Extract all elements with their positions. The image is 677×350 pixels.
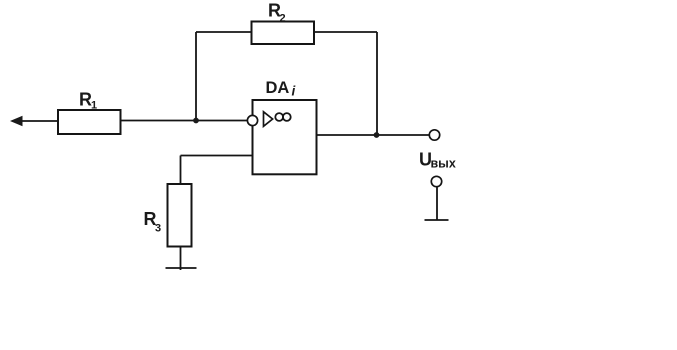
svg-text:2: 2 xyxy=(280,13,286,25)
op-amp gain triangle xyxy=(264,112,273,127)
wire feedback left vertical xyxy=(195,32,197,121)
wire non-inverting input horizontal xyxy=(181,155,253,157)
output terminal circle xyxy=(429,130,439,140)
resistor R3 xyxy=(168,184,192,247)
junction node A (inverting input) xyxy=(193,118,199,124)
wire top-right (R2 right lead) xyxy=(314,31,377,33)
resistor R2 xyxy=(252,22,315,45)
svg-text:вых: вых xyxy=(431,157,456,171)
infinity symbol left loop xyxy=(275,113,283,121)
svg-text:i: i xyxy=(292,84,296,99)
junction node B (output/feedback) xyxy=(374,132,380,138)
svg-text:DA: DA xyxy=(266,79,290,97)
svg-text:3: 3 xyxy=(155,223,161,235)
wire R3 to ground xyxy=(180,247,182,271)
wire top-left (R2 left lead) xyxy=(196,31,252,33)
wire down to R3 xyxy=(180,156,182,185)
wire lower terminal to ground xyxy=(436,187,438,220)
wire feedback right vertical xyxy=(376,32,378,135)
svg-text:1: 1 xyxy=(91,100,97,112)
wire op-amp output xyxy=(317,134,430,136)
wire input (arrow to R1) xyxy=(19,120,58,122)
lower terminal circle xyxy=(431,176,441,186)
ground bar under output xyxy=(425,219,449,221)
op-amp inverting input bubble xyxy=(247,115,257,125)
arrow head (input, pointing left) xyxy=(10,116,23,126)
resistor R1 xyxy=(58,110,121,134)
wire R1 to op-amp inverting input xyxy=(121,120,248,122)
ground bar under R3 xyxy=(166,267,197,269)
op-amp U1 body xyxy=(253,100,317,174)
infinity symbol right loop xyxy=(283,113,291,121)
